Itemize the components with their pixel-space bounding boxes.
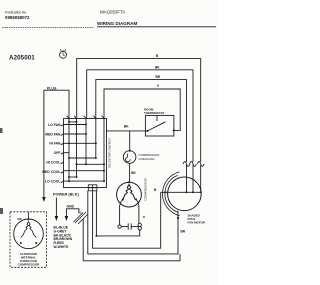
svg-text:BK: BK (155, 65, 160, 69)
svg-text:BR: BR (181, 230, 186, 234)
svg-text:BK: BK (124, 124, 129, 128)
svg-text:O: O (143, 215, 146, 219)
svg-text:LO FAN: LO FAN (48, 123, 61, 127)
svg-text:B: B (154, 188, 157, 192)
svg-text:LO COOL: LO COOL (45, 179, 60, 183)
svg-text:HI FAN: HI FAN (49, 142, 61, 146)
svg-text:0995058072: 0995058072 (5, 15, 30, 20)
svg-text:Publication No.: Publication No. (5, 11, 27, 15)
svg-text:MED COOL: MED COOL (42, 170, 60, 174)
svg-text:THERMOSTAT: THERMOSTAT (144, 111, 165, 115)
svg-text:GND: GND (67, 204, 75, 208)
svg-text:V: V (157, 84, 160, 88)
svg-text:OVERLOAD: OVERLOAD (139, 157, 155, 161)
svg-text:POWER (BLK): POWER (BLK) (53, 192, 79, 196)
svg-text:BR: BR (156, 75, 161, 79)
svg-text:BK: BK (131, 171, 136, 175)
svg-text:OFF: OFF (54, 151, 61, 155)
svg-text:COMPRESSOR: COMPRESSOR (144, 177, 148, 200)
svg-text:FAN MOTOR: FAN MOTOR (188, 221, 206, 225)
svg-text:WIRING DIAGRAM: WIRING DIAGRAM (97, 21, 137, 26)
svg-text:A205001: A205001 (9, 55, 35, 62)
svg-text:SELECTOR SWITCH: SELECTOR SWITCH (107, 138, 111, 168)
svg-text:MAG053FTA: MAG053FTA (100, 10, 125, 15)
svg-text:COMPRESSOR: COMPRESSOR (18, 263, 41, 267)
svg-text:MED FAN: MED FAN (45, 132, 61, 136)
svg-text:W-WHITE: W-WHITE (54, 245, 70, 249)
svg-text:B: B (156, 54, 159, 58)
svg-text:HI COOL: HI COOL (46, 161, 60, 165)
svg-text:PLUG: PLUG (47, 87, 57, 91)
